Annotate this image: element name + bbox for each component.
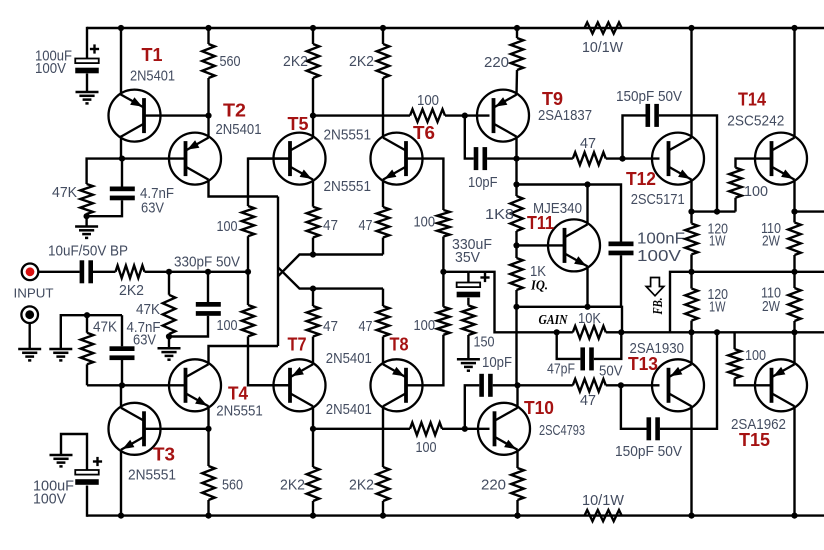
label 100 (T15 base) [745,348,766,364]
wire 220 to T9 emitter [515,70,518,95]
node T4 emitter / T3 base [205,426,211,432]
resistor 1K [510,258,523,290]
svg-text:2K2: 2K2 [349,478,374,494]
svg-text:10uF/50V BP: 10uF/50V BP [48,244,128,260]
label 120 (lower) [708,287,729,303]
resistor 47 (T7 emitter) [307,306,320,337]
resistor 47K (mid) [163,295,176,334]
wire T12 collector riser [690,28,692,137]
wire 100 T6-base bottom lead [442,237,444,272]
label 150pF 50V (lower) [615,444,682,460]
svg-text:T1: T1 [142,45,163,65]
label 2N5551 T6 [324,179,372,195]
label 2K2 (bottom left) [280,478,305,494]
wire T14 emitter to edge [795,210,824,212]
wire 2K2-tr to T6 collector [382,78,384,138]
label 110 (upper) [761,221,781,237]
node T12 emitter [688,209,694,215]
label 2SA1930 [630,341,685,357]
wire 4.7nF-l bottom lead [121,360,123,385]
transistor T14 2SC5242 [755,133,807,185]
node rail-2K2tl [310,25,316,31]
wire 100 upper bottom lead [247,236,249,272]
label IQ. [530,278,548,293]
node rail-560 [205,25,211,31]
wire 100uF to ground [86,74,88,93]
svg-text:100: 100 [217,318,238,334]
node 10K right [618,329,624,335]
wire 4.7nF-l top lead [121,315,123,346]
wire T2 collector to X column [209,180,279,197]
label 560 (bottom) [222,478,243,494]
ground below upper 47K [75,227,98,238]
label 220 (bottom) [481,478,506,494]
label T12 [626,169,656,189]
wire 150 to ground [467,335,469,359]
label 2N5551 T3 [128,468,176,484]
label T11 [527,213,554,233]
wire 2K2-br bottom lead [382,501,384,516]
svg-text:2N5551: 2N5551 [324,179,372,195]
label 47 (upper drive) [580,136,596,152]
resistor 100 (T5-T9) [410,109,445,122]
wire X diagonal lower [278,255,383,277]
node upper 47 rail [310,251,316,257]
resistor 100 (T7 base) [242,305,255,336]
label 100 (T7 base) [217,318,238,334]
ground stub left [49,349,72,360]
label 1K8 [485,207,514,223]
wire 150pF-u left [623,115,646,158]
node 47Kmid/330pF [166,333,172,339]
wire T11 base line [517,244,565,246]
wire 47K-ll top lead [86,315,88,333]
wire T4 collector to X column [209,346,279,364]
transistor T15 2SA1962 [755,359,807,411]
resistor 150 [462,305,475,335]
node rail-2K2bl [310,513,316,519]
resistor 220 (top) [511,38,524,70]
resistor 2K2 (top left) [307,44,320,78]
wire 10pF-l right [493,384,518,386]
node 4.7nF lower bottom [119,382,125,388]
label 100 (T7-T10) [416,440,437,456]
svg-text:220: 220 [484,55,509,71]
resistor 1K8 [510,196,523,231]
resistor 10/1W (top) [585,22,622,33]
svg-text:100V: 100V [35,61,66,77]
wire T11 collector riser [586,185,588,225]
wire T15 collector drop [793,406,795,515]
label T14 [738,90,766,110]
resistor 220 (bottom) [511,468,524,500]
wire T8 emitter lead [382,337,384,365]
label 2N5401 T1 [130,69,175,85]
node T14 emitter [791,209,797,215]
label 2N5401 T7 [326,351,372,367]
label T8 [390,335,409,355]
wire T5 emitter lead [312,180,314,207]
svg-text:2N5401: 2N5401 [326,402,372,418]
svg-text:T2: T2 [223,100,246,120]
svg-text:10/1W: 10/1W [582,493,624,509]
resistor 100 (T15 base) [728,349,741,378]
label 120 (upper) [708,222,729,238]
node T5 collector junction [310,113,316,119]
wire 150pF-l right [660,332,717,429]
svg-text:2SA1837: 2SA1837 [538,108,592,124]
wire T2 emitter riser [207,116,209,138]
label 47 (T5) [323,218,338,234]
label T9 [542,89,563,109]
svg-text:2K2: 2K2 [283,54,308,70]
node output-mid [440,269,446,275]
svg-text:560: 560 [220,54,241,70]
resistor 100 (T7-T10) [410,423,442,436]
wire jack2 to ground [29,323,31,349]
capacitor 4.7nF 63V (upper) [110,187,135,201]
wire 100h to T9 base [445,114,490,116]
capacitor 330pF 50V [196,302,221,316]
label 2K2 (top right) [349,54,374,70]
wire 47 T8 to node [382,289,384,306]
wire 220 top lead [516,28,518,38]
wire T6 emitter lead [382,180,384,207]
wire T1 emitter from rail [120,28,122,96]
node rail-2K2tr [380,25,386,31]
svg-text:47: 47 [323,218,338,234]
wire 4.7nF top lead [121,159,123,187]
wire T11e to 10K node [588,307,623,333]
wire X diagonal upper [278,267,383,288]
resistor 47 (T5 emitter) [307,207,320,238]
wire 1K8 to base node [515,231,517,245]
svg-text:100: 100 [744,184,768,200]
label T5 [288,114,309,134]
resistor 47 (T8 emitter) [377,306,390,337]
wire T12 emitter drop [690,180,692,212]
label 47 (T8) [359,319,373,335]
transistor T8 2N5401 [371,359,423,411]
svg-text:2W: 2W [762,299,780,315]
svg-text:63V: 63V [133,333,156,349]
svg-text:47: 47 [323,319,338,335]
svg-text:T15: T15 [739,430,770,450]
capacitor 150pF 50V (upper) [646,104,659,127]
wire T12 emitter line [692,210,736,212]
label 2K2 input [119,283,144,299]
svg-text:100: 100 [414,318,436,334]
wire T8 collector drop [382,406,384,467]
resistor 110 2W (upper) [788,223,801,256]
wire T5 base line [248,157,290,159]
wire output rail [692,271,824,273]
svg-text:47: 47 [580,393,596,409]
svg-text:47: 47 [359,218,373,234]
wire node to ground upper [85,216,87,226]
svg-text:100: 100 [217,219,238,235]
transistor T10 2SC4793 [478,403,530,455]
label 10uF/50V BP [48,244,128,260]
wire T13 emitter riser [690,332,692,364]
svg-text:2SC4793: 2SC4793 [539,423,585,439]
label 220 (top) [484,55,509,71]
label T10 [524,398,554,418]
label 35V [455,250,480,266]
label T1 [142,45,163,65]
wire output link right [468,272,556,333]
svg-text:2N5401: 2N5401 [216,122,262,138]
wire bottom supply rail [87,514,824,516]
resistor 47 (T6 emitter) [377,207,390,238]
transistor T7 2N5401 [274,359,326,411]
node 47K lower-left top [84,312,90,318]
svg-text:T10: T10 [524,398,554,418]
wire T1 collector drop [120,136,122,159]
resistor 120 1W (upper) [685,224,698,255]
transistor T12 2SC5171 [652,133,704,185]
resistor 100 (T6 base) [437,210,450,237]
svg-text:2N5551: 2N5551 [324,128,372,144]
svg-text:10/1W: 10/1W [582,40,623,56]
label T3 [153,445,175,465]
node 10K left [554,329,560,335]
svg-text:150: 150 [474,335,495,351]
label 2K2 (bottom right) [349,478,374,494]
label 2N5551 T5 [324,128,372,144]
wire 47 to T12 base [606,157,660,159]
svg-text:220: 220 [481,478,506,494]
node T10 collector [514,382,520,388]
transistor T2 2N5401 [169,133,221,185]
resistor 47K (upper) [80,184,93,214]
label 100 (T5-T9) [417,93,439,109]
label T13 [628,354,658,374]
label 2K2 (top left) [283,54,308,70]
wire T3 collector riser [120,385,122,408]
svg-text:1W: 1W [709,300,726,316]
label 2N5401 T8 [326,402,372,418]
resistor 10/1W (bottom) [585,510,622,521]
wire 10K leads [557,331,622,333]
wire 47pF right [594,332,622,359]
wire 47 T7 to node [312,289,314,306]
svg-text:2K2: 2K2 [280,478,305,494]
wire T14 emitter drop [793,180,795,212]
wire 2K2 to node A [145,271,249,273]
ground below input jack [18,349,41,360]
label 2SC5171 [631,192,685,208]
wire 100 T8-base top lead [442,272,444,307]
label 4.7nF (lower) [127,320,161,336]
label 330uF [452,237,492,253]
wire FB takeoff [670,272,692,333]
wire T10 emitter drop [516,450,518,468]
wire 10pF-u right [487,157,516,159]
svg-text:T8: T8 [390,335,409,355]
node 560-rail [205,513,211,519]
node rail-T1 [118,25,124,31]
wire 110-u leads [793,212,795,272]
label 50V (47pF) [599,364,623,380]
wire T7 emitter lead [312,337,314,365]
wire 2K2-bl leads [312,429,314,516]
svg-text:47: 47 [359,319,373,335]
node 47K/4.7nF upper [84,213,90,219]
wire 150pF-u right [659,115,717,211]
transistor T13 2SA1930 [652,359,704,411]
resistor 560 (bottom) [202,466,215,500]
svg-text:1K8: 1K8 [485,207,514,223]
node input-100s [245,269,251,275]
wire 10uF to 2K2 [93,271,116,273]
label 47 (lower drive) [580,393,596,409]
wire 100h-b to T10 base [313,428,490,430]
svg-text:47K: 47K [52,185,77,201]
label 63V (upper) [141,201,164,217]
svg-text:50V: 50V [599,364,623,380]
node rail-2K2br [380,513,386,519]
label 10pF (lower) [482,355,512,371]
label 2SC4793 [539,423,585,439]
label 47K (mid) [136,302,160,318]
label 100V (100nF) [637,248,682,265]
svg-text:2N5551: 2N5551 [128,468,176,484]
svg-text:MJE340: MJE340 [533,201,582,217]
resistor 2K2 (top right) [377,44,390,78]
wire 100uF top riser [86,27,88,59]
node T9 collector [513,156,519,162]
resistor 47 (upper drive) [573,152,606,165]
capacitor 330uF 35V [457,273,490,297]
label 47 (T7) [323,319,338,335]
node rail-T12 [688,25,694,31]
node T1 collector junction [119,156,125,162]
capacitor 100uF 100V (top) [75,44,99,73]
resistor 2K2 (bottom right) [377,467,390,501]
symbol FB arrow [646,278,664,296]
svg-text:100V: 100V [33,492,66,508]
svg-text:100V: 100V [637,248,682,265]
wire 100uF-b to rail [86,486,88,517]
wire 2K2-tr top lead [382,28,384,44]
wire input to 10uF [38,271,79,273]
wire 1K leads [515,245,517,306]
transistor T9 2SA1837 [477,90,529,142]
svg-text:T9: T9 [542,89,563,109]
label 100nF [637,231,685,248]
label 100 (T5 base) [217,219,238,235]
wire 120-l leads [690,272,692,333]
node 110-l bottom [791,329,797,335]
svg-text:100: 100 [745,348,766,364]
svg-text:IQ.: IQ. [530,278,548,293]
ground below top 100uF [76,92,99,103]
wire 10pF-u left [465,116,474,159]
wire 47K-ll bottom lead [86,364,88,385]
label INPUT [14,286,54,301]
svg-text:560: 560 [222,478,243,494]
wire T10 collector riser [516,385,518,408]
node T3 emitter rail [118,513,124,519]
label 100V (top) [35,61,66,77]
wire 47K to node [85,214,87,216]
svg-text:FB.: FB. [650,298,665,316]
wire T14 collector riser [793,28,795,137]
wire T13 collector drop [690,406,692,515]
node T7 collector junction [310,426,316,432]
svg-text:47K: 47K [93,320,117,336]
svg-text:47pF: 47pF [547,362,575,378]
wire 150pF-l left [621,385,647,429]
wire T4 emitter drop [207,406,209,429]
svg-text:47: 47 [580,136,596,152]
wire 2K2-tl bottom lead [312,78,314,116]
resistor 10K [573,326,606,339]
svg-text:2K2: 2K2 [119,283,144,299]
node T11 collector top [584,181,590,187]
transistor T5 2N5551 [274,133,326,185]
node T12 base [619,156,625,162]
svg-text:T14: T14 [738,90,766,110]
wire 120-1W-u leads [690,212,692,272]
node rail-T15 [791,513,797,519]
label 1W (lower) [709,300,726,316]
wire feedback line [621,331,824,333]
wire 47 to T13 base [606,384,660,386]
wire 47 T5 to node [312,238,314,255]
label 100V (bottom) [33,492,66,508]
label 2SA1837 [538,108,592,124]
wire lower node line to T4 base [87,384,186,386]
node T13 base [618,382,624,388]
svg-text:2K2: 2K2 [349,54,374,70]
capacitor 10pF (upper) [474,147,487,170]
label 150pF 50V (upper) [616,89,682,105]
svg-text:100: 100 [416,440,437,456]
label 1W (upper) [709,234,726,250]
label 10/1W (top) [582,40,623,56]
label T6 [413,123,435,143]
label 2SA1962 [731,417,786,433]
wire 560-b top lead [207,429,209,466]
svg-text:INPUT: INPUT [14,286,54,301]
node input-330pF [205,269,211,275]
svg-text:47K: 47K [136,302,160,318]
wire 4.7nF bottom lead [87,200,122,216]
wire 560 top lead [207,28,209,44]
ground below 47K mid [158,348,181,359]
svg-text:T7: T7 [288,335,307,355]
ground above bottom 100uF [50,455,73,466]
label T15 [739,430,770,450]
svg-text:10pF: 10pF [482,355,512,371]
svg-text:T12: T12 [626,169,656,189]
svg-text:10pF: 10pF [468,175,498,191]
label 1K [530,264,546,280]
node input-47Kmid [166,269,172,275]
svg-text:35V: 35V [455,250,480,266]
wire T7 base line [248,384,290,386]
resistor 100 (T8 base) [437,307,450,335]
wire T9 collector drop [515,137,517,159]
label 100uF (bottom) [33,479,74,495]
label 2SC5242 [727,113,784,129]
wire 100nF bottom link [517,255,622,306]
resistor 2K2 (bottom left) [307,467,320,501]
node T11 emitter bottom [584,304,590,310]
svg-text:T4: T4 [228,384,248,404]
